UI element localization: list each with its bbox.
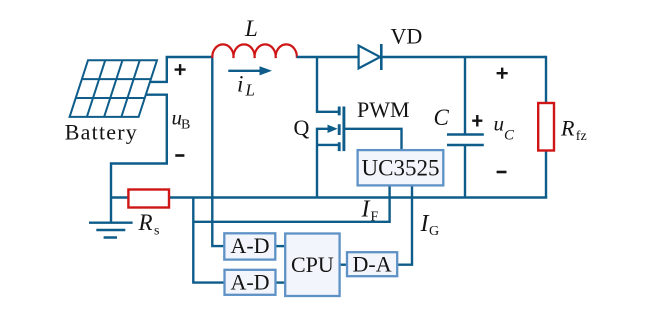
solar panel battery bbox=[70, 60, 157, 117]
resistor Rfz box bbox=[538, 103, 554, 151]
svg-text:C: C bbox=[434, 105, 450, 130]
svg-text:Q: Q bbox=[294, 115, 310, 140]
label - output polarity bbox=[497, 171, 507, 174]
A-D converter box upper bbox=[224, 233, 275, 259]
capacitor C bottom leg bbox=[464, 145, 466, 198]
svg-text:fz: fz bbox=[576, 129, 587, 144]
svg-text:PWM: PWM bbox=[357, 97, 410, 122]
wire gate to UC3525 top pin bbox=[344, 129, 402, 150]
wire uB sense line down to upper A-D bbox=[212, 56, 224, 246]
wire IF feedback line to UC3525 bbox=[193, 186, 389, 221]
wire bottom rail bbox=[111, 196, 547, 198]
wire battery positive terminal to top rail bbox=[150, 57, 167, 82]
wire MOSFET source and body leg down to bottom rail bbox=[317, 129, 338, 198]
svg-text:UC3525: UC3525 bbox=[362, 156, 440, 181]
inductor L coil bbox=[212, 44, 297, 58]
wire top rail from coil to diode anode bbox=[297, 56, 359, 58]
wire IG line from D-A up to UC3525 bbox=[397, 186, 412, 264]
svg-text:R: R bbox=[560, 116, 575, 141]
svg-text:I: I bbox=[420, 211, 430, 237]
capacitor C lower plate bbox=[447, 144, 484, 147]
wire Rs sense junction down to lower A-D bbox=[193, 198, 224, 283]
diode VD cathode bar bbox=[380, 44, 383, 70]
CPU box bbox=[285, 234, 339, 297]
label + capacitor polarity bbox=[472, 115, 482, 127]
MOSFET Q channel bar segments bbox=[338, 107, 341, 152]
wire right leg top (to Rfz) bbox=[545, 56, 547, 103]
diode VD triangle bbox=[359, 46, 381, 69]
svg-text:D-A: D-A bbox=[353, 252, 392, 277]
svg-text:C: C bbox=[504, 128, 515, 144]
wire lower A-D to CPU bbox=[276, 281, 286, 283]
wire right leg bottom (Rfz to bottom rail) bbox=[545, 151, 547, 198]
wire upper A-D to CPU bbox=[276, 245, 286, 247]
resistor Rs box bbox=[128, 190, 169, 208]
MOSFET body arrow head bbox=[328, 125, 338, 133]
MOSFET Q gate bar bbox=[342, 107, 345, 152]
UC3525 box bbox=[358, 150, 444, 185]
svg-text:A-D: A-D bbox=[230, 233, 269, 258]
svg-text:L: L bbox=[245, 81, 255, 100]
svg-text:A-D: A-D bbox=[230, 270, 269, 295]
ground symbol bbox=[89, 198, 133, 238]
label + output polarity bbox=[497, 68, 508, 79]
wire MOSFET drain riser from top rail bbox=[317, 57, 338, 112]
wire CPU to D-A bbox=[340, 264, 347, 266]
wire battery negative terminal down-left bbox=[111, 95, 167, 198]
capacitor C upper plate bbox=[447, 133, 484, 136]
svg-text:u: u bbox=[494, 112, 505, 136]
wire top rail left segment bbox=[166, 56, 213, 58]
svg-text:VD: VD bbox=[391, 24, 423, 49]
current iL arrow bbox=[228, 70, 262, 72]
svg-text:R: R bbox=[138, 210, 153, 235]
svg-text:B: B bbox=[181, 118, 190, 133]
capacitor C top leg bbox=[464, 57, 466, 135]
svg-text:I: I bbox=[361, 197, 371, 223]
label + battery positive bbox=[175, 64, 186, 75]
label - battery negative bbox=[175, 154, 184, 157]
svg-text:L: L bbox=[244, 16, 258, 41]
svg-text:G: G bbox=[429, 224, 439, 239]
svg-text:Battery: Battery bbox=[65, 120, 138, 145]
A-D converter box lower bbox=[225, 270, 276, 295]
svg-text:CPU: CPU bbox=[291, 252, 334, 277]
D-A converter box bbox=[347, 252, 397, 276]
svg-text:F: F bbox=[371, 210, 379, 225]
svg-text:s: s bbox=[154, 224, 159, 239]
wire top rail from diode cathode to right corner bbox=[381, 56, 546, 58]
svg-text:i: i bbox=[237, 72, 243, 97]
